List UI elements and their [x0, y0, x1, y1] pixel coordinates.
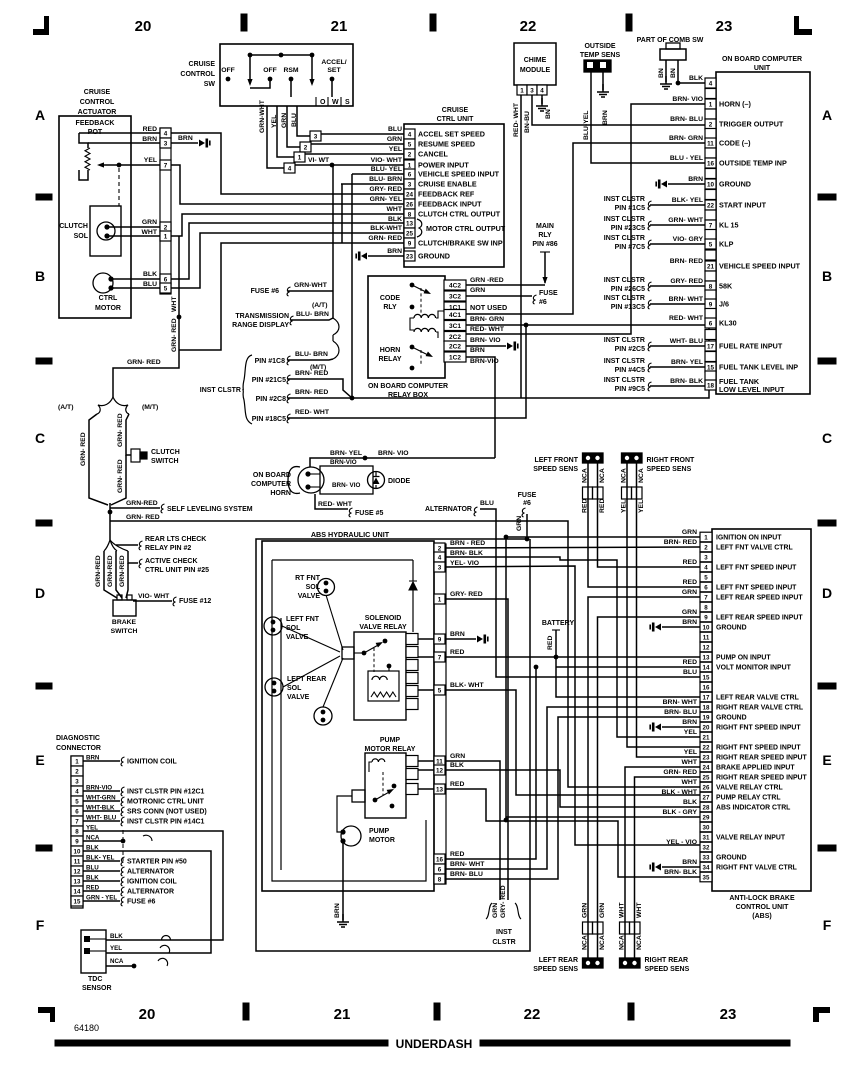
svg-text:VEHICLE SPEED INPUT: VEHICLE SPEED INPUT	[719, 262, 801, 271]
row tick right	[818, 845, 836, 851]
ABS unit pin 23 RIGHT REAR SPEED INPUT	[700, 752, 712, 762]
hydraulic unit connector strip	[434, 544, 446, 884]
svg-text:2: 2	[75, 768, 79, 775]
svg-text:GRN-WHT: GRN-WHT	[259, 99, 266, 133]
column tick bottom 21/22	[434, 1003, 440, 1020]
right front speed sensor	[622, 453, 643, 463]
wire VIO-WHT down to A/T loop	[332, 165, 334, 318]
comb sw symbol	[666, 43, 680, 49]
ABS unit pin 6 LEFT FNT SPEED INPUT	[700, 582, 712, 592]
svg-text:2C2: 2C2	[449, 343, 461, 350]
cruise unit pin 1 POWER INPUT	[404, 160, 415, 170]
svg-text:ABS INDICATOR CTRL: ABS INDICATOR CTRL	[716, 805, 790, 812]
inst clstr bottom brace	[486, 903, 521, 919]
svg-text:6: 6	[75, 808, 79, 815]
svg-text:ACTIVE CHECK: ACTIVE CHECK	[145, 558, 198, 565]
computer unit pin 4	[705, 78, 716, 88]
svg-text:INST CLSTR: INST CLSTR	[604, 295, 645, 302]
svg-text:BRN- RED: BRN- RED	[670, 258, 703, 265]
svg-text:BLU - YEL: BLU - YEL	[670, 155, 703, 162]
svg-text:BATTERY: BATTERY	[542, 620, 575, 627]
ABS unit pin 8	[700, 602, 712, 612]
svg-text:5: 5	[164, 285, 168, 292]
svg-text:4C2: 4C2	[449, 282, 461, 289]
wire RED hydraulic pin 7 to ABS pin 13	[446, 656, 700, 658]
svg-text:3: 3	[314, 133, 318, 140]
diagnostic pin 2	[71, 766, 83, 776]
svg-text:WHT: WHT	[387, 206, 403, 213]
svg-text:LEFT FNT VALVE CTRL: LEFT FNT VALVE CTRL	[716, 545, 793, 552]
connector loop M/T	[333, 341, 339, 359]
ABS unit pin 10 GROUND	[700, 622, 712, 632]
svg-text:YEL: YEL	[110, 945, 122, 952]
svg-text:LEFT REAR: LEFT REAR	[539, 957, 578, 964]
svg-text:23: 23	[406, 253, 414, 260]
svg-text:FUSE: FUSE	[539, 290, 558, 297]
svg-text:18: 18	[707, 382, 715, 389]
svg-text:GRY- RED: GRY- RED	[450, 591, 483, 598]
svg-text:7: 7	[438, 654, 442, 661]
svg-text:3: 3	[438, 564, 442, 571]
svg-text:4: 4	[438, 554, 442, 561]
svg-text:32: 32	[703, 844, 710, 851]
svg-text:BRN- BLK: BRN- BLK	[450, 550, 483, 557]
svg-text:OUTSIDE: OUTSIDE	[584, 43, 615, 50]
relay box pin 3C1	[444, 321, 466, 331]
svg-text:B: B	[822, 268, 832, 284]
wire BRN-RED hydraulic pin 2 to ABS pin 2	[446, 547, 700, 548]
column tick bottom 20/21	[243, 1003, 249, 1020]
svg-text:BRN- GRN: BRN- GRN	[669, 135, 703, 142]
wire BLU from switch	[297, 106, 310, 136]
computer unit pin 9 J/6	[705, 299, 716, 309]
diagnostic pin 6 SRS CONN (NOT USED)	[71, 806, 83, 816]
row tick left	[36, 845, 52, 851]
wire BRN ground ABS pin 34	[662, 866, 700, 868]
svg-text:BRN- BLU: BRN- BLU	[450, 871, 483, 878]
wire YEL diagnostic pin 8 to TDC	[83, 831, 223, 940]
cruise unit pin 26 FEEDBACK INPUT	[404, 199, 415, 209]
svg-text:13: 13	[703, 654, 710, 661]
hydraulic unit pin 4	[434, 552, 445, 562]
svg-text:GRN -RED: GRN -RED	[470, 277, 504, 284]
wire BRN-BLK computer pin 18 inst clstr #9C5	[650, 385, 705, 387]
svg-text:BRN- GRN: BRN- GRN	[470, 316, 504, 323]
hydraulic unit pin 2	[434, 543, 445, 553]
svg-text:ON BOARD: ON BOARD	[253, 472, 291, 479]
svg-text:2: 2	[408, 151, 412, 158]
hydraulic unit pin 3	[434, 562, 445, 572]
svg-text:CLSTR: CLSTR	[492, 939, 515, 946]
wire NCA TDC no connection	[106, 965, 132, 967]
svg-text:27: 27	[703, 794, 710, 801]
diagnostic pin 4 INST CLSTR PIN #12C1	[71, 786, 83, 796]
wire GRN-RED brake 3 with active check stub	[128, 551, 138, 563]
svg-text:BLU: BLU	[480, 500, 494, 507]
svg-text:BRN- RED: BRN- RED	[295, 370, 328, 377]
svg-text:23: 23	[716, 18, 733, 35]
wire RED-WHT horn to fuse #5	[315, 494, 348, 509]
svg-text:12: 12	[703, 644, 710, 651]
svg-text:GROUND: GROUND	[716, 715, 747, 722]
svg-text:INST CLSTR: INST CLSTR	[604, 337, 645, 344]
pin 6	[160, 274, 171, 284]
svg-text:CONNECTOR: CONNECTOR	[56, 745, 101, 752]
svg-text:YEL- VIO: YEL- VIO	[450, 560, 479, 567]
svg-text:FUSE: FUSE	[518, 492, 537, 499]
svg-text:YEL - VIO: YEL - VIO	[666, 839, 697, 846]
svg-text:CLUTCH: CLUTCH	[59, 223, 88, 230]
wire RED hydraulic pin 16 to ABS pin 14	[446, 667, 536, 859]
svg-text:GRN: GRN	[142, 219, 157, 226]
svg-text:BRN: BRN	[450, 631, 465, 638]
cruise unit pin 8 CLUTCH CTRL OUTPUT	[404, 209, 415, 219]
wire RED-WHT inst clstr pin #18C5	[288, 325, 526, 418]
svg-text:3C2: 3C2	[449, 293, 461, 300]
wire GRN-WHT fuse #6	[288, 290, 333, 292]
wire RED hydraulic pin 7 stub	[418, 656, 446, 658]
wire BLK ctrl motor pin 6	[111, 278, 160, 280]
wire NCA diagnostic pin 9 no connection	[83, 840, 121, 842]
svg-text:BLU- BRN: BLU- BRN	[295, 351, 328, 358]
connector pin 3	[310, 131, 321, 141]
svg-text:BRN-VIO: BRN-VIO	[470, 358, 499, 365]
svg-text:FEEDBACK INPUT: FEEDBACK INPUT	[418, 200, 482, 209]
svg-text:1C2: 1C2	[449, 354, 461, 361]
wire BN chime pin 4 to ground	[541, 95, 543, 104]
diagnostic pin 10	[71, 846, 83, 856]
svg-text:LEFT FRONT: LEFT FRONT	[534, 457, 578, 464]
svg-text:GROUND: GROUND	[418, 252, 450, 261]
svg-text:6: 6	[709, 320, 713, 327]
node WHT/GRN-RED junction	[177, 315, 182, 320]
ABS unit pin 20 RIGHT FNT SPEED INPUT	[700, 722, 712, 732]
svg-text:MOTOR: MOTOR	[95, 305, 121, 312]
switch top rail	[250, 54, 312, 56]
svg-text:RED: RED	[683, 559, 697, 566]
svg-text:#6: #6	[539, 299, 547, 306]
svg-text:4: 4	[709, 80, 713, 87]
svg-text:3: 3	[75, 778, 79, 785]
svg-text:4C1: 4C1	[449, 312, 461, 319]
svg-text:YEL: YEL	[684, 749, 697, 756]
svg-text:1: 1	[298, 154, 302, 161]
svg-text:CRUISE: CRUISE	[84, 89, 111, 96]
hydraulic inner wire loop	[272, 559, 413, 561]
ABS unit pin 12	[700, 642, 712, 652]
svg-text:ACTUATOR: ACTUATOR	[78, 109, 117, 116]
cruise unit pin 6 VEHICLE SPEED INPUT	[404, 169, 415, 179]
wire GRN ABS pin 1	[506, 536, 700, 538]
computer unit empty pin	[705, 330, 716, 340]
dashed link wiper to clutch sol	[118, 168, 120, 206]
computer unit pin 16 OUTSIDE TEMP INP	[705, 158, 716, 168]
svg-text:GRN- RED: GRN- RED	[171, 318, 178, 352]
wire BRN-RED inst clstr pin #2C8 long to computer pin 21	[288, 266, 709, 398]
svg-text:1: 1	[408, 162, 412, 169]
svg-text:RED- WHT: RED- WHT	[295, 409, 330, 416]
wire BRN hydraulic pin 9 ground	[446, 638, 476, 640]
svg-text:GRN-RED: GRN-RED	[107, 555, 114, 587]
svg-text:CRUISE ENABLE: CRUISE ENABLE	[418, 180, 477, 189]
pin 7	[160, 160, 171, 170]
svg-text:PIN #26C5: PIN #26C5	[611, 286, 645, 293]
svg-text:GRN: GRN	[682, 589, 697, 596]
svg-text:64180: 64180	[74, 1023, 99, 1033]
svg-text:WHT- BLU: WHT- BLU	[670, 338, 703, 345]
svg-text:MOTOR CTRL OUTPUT: MOTOR CTRL OUTPUT	[426, 224, 506, 233]
ground relay 2C2	[507, 343, 513, 350]
svg-text:FUSE #6: FUSE #6	[127, 899, 156, 906]
switch contact dots	[226, 77, 231, 82]
svg-text:2: 2	[438, 545, 442, 552]
svg-text:TEMP SENS: TEMP SENS	[580, 52, 621, 59]
hydraulic unit pin 8	[434, 874, 445, 884]
relay box pin 4C2	[444, 280, 466, 290]
pump relay coil	[372, 759, 385, 762]
svg-text:26: 26	[406, 201, 414, 208]
ground computer pin 10	[661, 181, 667, 188]
svg-text:VIO- WHT: VIO- WHT	[371, 157, 403, 164]
switch internal wires	[250, 79, 270, 88]
svg-text:VI- WT: VI- WT	[308, 157, 330, 164]
wire WHT right rear sensor to ABS pin 24	[625, 767, 700, 958]
svg-text:3: 3	[164, 140, 168, 147]
svg-text:RED- WHT: RED- WHT	[318, 501, 353, 508]
svg-text:RIGHT FNT SPEED INPUT: RIGHT FNT SPEED INPUT	[716, 745, 801, 752]
svg-text:SWITCH: SWITCH	[151, 458, 179, 465]
svg-text:RED: RED	[450, 649, 464, 656]
svg-text:GRN- RED: GRN- RED	[368, 235, 402, 242]
svg-text:PIN #1C8: PIN #1C8	[255, 358, 285, 365]
svg-text:BRN-VIO: BRN-VIO	[330, 459, 357, 466]
svg-text:PIN #86: PIN #86	[532, 241, 557, 248]
wire BRN-WHT computer pin 9 inst clstr #13C5	[650, 303, 705, 305]
svg-text:WHT: WHT	[636, 902, 643, 918]
svg-text:20: 20	[139, 1006, 156, 1023]
svg-text:REAR LTS CHECK: REAR LTS CHECK	[145, 536, 206, 543]
svg-text:GRN-RED: GRN-RED	[119, 555, 126, 587]
svg-text:DIODE: DIODE	[388, 478, 411, 485]
svg-text:RIGHT REAR: RIGHT REAR	[645, 957, 689, 964]
wire BLK pin6 to cruise unit pin 13	[171, 223, 404, 279]
feedback pot resistor	[79, 133, 88, 148]
svg-text:5: 5	[438, 687, 442, 694]
svg-text:BRN: BRN	[334, 903, 341, 918]
svg-text:COMPUTER: COMPUTER	[251, 481, 291, 488]
svg-text:2: 2	[304, 144, 308, 151]
wire BLU-BRN down to GRN-RED row	[341, 184, 343, 243]
wire GRN-RED vertical to A/T fork	[113, 317, 179, 397]
svg-text:RANGE DISPLAY: RANGE DISPLAY	[232, 322, 289, 329]
wire BRN ground cruise pin 23	[368, 255, 404, 257]
node BRN-RED junction	[350, 396, 355, 401]
svg-text:16: 16	[707, 160, 715, 167]
svg-text:4: 4	[540, 87, 544, 94]
cruise unit pin 2 CANCEL	[404, 149, 415, 159]
cruise unit pin 3 CRUISE ENABLE	[404, 179, 415, 189]
svg-text:RED: RED	[547, 636, 554, 650]
wire GRN-RED right branch	[126, 414, 129, 449]
wire GRN from switch	[287, 106, 300, 147]
computer unit empty pin	[705, 190, 716, 200]
svg-text:WHT: WHT	[142, 229, 158, 236]
computer unit empty pin	[705, 129, 716, 139]
svg-text:19: 19	[703, 714, 710, 721]
svg-text:RIGHT REAR VALVE CTRL: RIGHT REAR VALVE CTRL	[716, 705, 803, 712]
svg-text:21: 21	[703, 734, 710, 741]
svg-text:CONTROL UNIT: CONTROL UNIT	[736, 904, 789, 911]
svg-text:PIN #1C5: PIN #1C5	[615, 205, 645, 212]
svg-text:RED: RED	[683, 579, 697, 586]
wire GRN-RED to self leveling system	[110, 507, 160, 509]
svg-text:ON BOARD COMPUTER: ON BOARD COMPUTER	[368, 383, 448, 390]
wire BLU-BRN transmission range display	[291, 318, 333, 320]
wire BRN relay 2C2b to ground	[466, 345, 506, 347]
svg-text:INST CLSTR: INST CLSTR	[604, 216, 645, 223]
svg-text:RED- WHT: RED- WHT	[513, 102, 520, 137]
node RED pin16 junction	[534, 665, 539, 670]
wire GRN hydraulic pin 11 to inst clstr	[446, 761, 500, 900]
solenoid relay coil	[368, 671, 399, 701]
svg-text:25: 25	[703, 774, 710, 781]
computer unit empty pin	[705, 352, 716, 362]
wire BLK comb sw to computer pin 4	[678, 82, 705, 84]
svg-text:BRN- RED: BRN- RED	[295, 389, 328, 396]
wire BLK hydraulic pin 12 stub	[418, 769, 446, 771]
wire BLU pin3 to cruise unit pin 4	[321, 133, 404, 135]
svg-text:35: 35	[703, 874, 710, 881]
svg-text:30: 30	[703, 824, 710, 831]
svg-text:6: 6	[438, 866, 442, 873]
svg-text:C: C	[822, 430, 832, 446]
computer unit empty pin	[705, 271, 716, 281]
svg-text:BRN- BLU: BRN- BLU	[664, 709, 697, 716]
wire BRN-BLU hydraulic pin 8 to ABS pin 18	[446, 717, 700, 879]
svg-text:BRN: BRN	[470, 347, 485, 354]
hop arc on TDC wire	[162, 936, 171, 941]
svg-text:GRN: GRN	[682, 609, 697, 616]
svg-text:BLK: BLK	[450, 762, 464, 769]
svg-text:18: 18	[703, 704, 710, 711]
connector pin 2	[300, 142, 311, 152]
wire YEL right front sensor to ABS pin 22	[627, 463, 700, 747]
svg-text:5: 5	[408, 141, 412, 148]
svg-text:C: C	[35, 430, 45, 446]
row tick right	[818, 520, 836, 526]
ABS unit pin 33 GROUND	[700, 852, 712, 862]
computer unit pin 8 58K	[705, 281, 716, 291]
svg-text:INST CLSTR: INST CLSTR	[604, 277, 645, 284]
svg-text:ABS HYDRAULIC UNIT: ABS HYDRAULIC UNIT	[311, 530, 390, 539]
svg-text:F: F	[823, 917, 832, 933]
svg-text:9: 9	[408, 240, 412, 247]
svg-text:BLU- YEL: BLU- YEL	[371, 166, 402, 173]
svg-text:BRN- WHT: BRN- WHT	[450, 861, 485, 868]
svg-text:CTRL UNIT PIN #25: CTRL UNIT PIN #25	[145, 567, 209, 574]
relay box pin 4C1	[444, 310, 466, 320]
svg-text:GRN- RED: GRN- RED	[126, 514, 160, 521]
actuator connector strip	[160, 128, 171, 294]
wire GRN-RED brake 2 with rear lts check stub	[115, 551, 117, 556]
svg-text:GROUND: GROUND	[716, 855, 747, 862]
hydraulic unit pin 1	[434, 594, 445, 604]
diagnostic pin 9	[71, 836, 83, 846]
svg-text:BRAKE APPLIED INPUT: BRAKE APPLIED INPUT	[716, 765, 795, 772]
ABS unit pin 19 GROUND	[700, 712, 712, 722]
wire BRN ground computer pin 10	[668, 183, 705, 185]
pin 4	[160, 128, 171, 138]
wire BRN actuator pin 3	[88, 142, 160, 144]
solenoid relay pin stack	[406, 634, 418, 645]
node comb sw junction	[676, 81, 681, 86]
svg-text:ON BOARD COMPUTER: ON BOARD COMPUTER	[722, 56, 802, 63]
ABS unit pin 17 LEFT REAR VALVE CTRL	[700, 692, 712, 702]
wire WHT-BLU computer pin 17 inst clstr #2C5	[650, 345, 705, 347]
TDC sensor box	[81, 930, 106, 973]
svg-text:BLK: BLK	[143, 271, 157, 278]
wire BRN to ground from pin 3	[171, 142, 198, 144]
svg-text:SW: SW	[204, 81, 216, 88]
svg-text:INST CLSTR PIN #14C1: INST CLSTR PIN #14C1	[127, 819, 205, 826]
svg-text:PUMP RELAY CTRL: PUMP RELAY CTRL	[716, 795, 781, 802]
computer unit pin 17 FUEL RATE INPUT	[705, 341, 716, 351]
relay box pin 3C2	[444, 291, 466, 301]
clutch sol box	[90, 206, 121, 256]
svg-text:GRN: GRN	[281, 113, 288, 128]
ABS unit pin 32	[700, 842, 712, 852]
relay box pin 2C2	[444, 332, 466, 342]
wire BLU-BRN inst clstr pin #1C8	[288, 359, 333, 360]
pin 5	[160, 283, 171, 293]
left front speed sensor	[583, 453, 604, 463]
svg-text:MODULE: MODULE	[520, 67, 551, 74]
outside temp sens connector	[584, 60, 611, 72]
svg-text:7: 7	[164, 162, 168, 169]
svg-text:SPEED SENS: SPEED SENS	[647, 466, 692, 473]
svg-text:LOW LEVEL INPUT: LOW LEVEL INPUT	[719, 385, 785, 394]
svg-text:INST CLSTR: INST CLSTR	[200, 387, 241, 394]
svg-text:FEEDBACK REF: FEEDBACK REF	[418, 190, 475, 199]
svg-text:9: 9	[75, 838, 79, 845]
wire BLK-YEL computer pin 22 inst clstr #1C5	[650, 204, 705, 206]
column tick bottom 22/23	[628, 1003, 634, 1020]
svg-text:UNIT: UNIT	[754, 65, 771, 72]
svg-text:ACCEL SET SPEED: ACCEL SET SPEED	[418, 130, 485, 139]
svg-text:15: 15	[703, 674, 710, 681]
wire WHT down from actuator	[178, 236, 180, 317]
wire BLK diagnostic pin 10 to TDC	[83, 851, 211, 953]
svg-text:7: 7	[75, 818, 79, 825]
ABS unit pin 35	[700, 872, 712, 882]
wire RED-WHT chime pin 1 down	[520, 95, 522, 398]
svg-text:DIAGNOSTIC: DIAGNOSTIC	[56, 735, 100, 742]
svg-text:NCA: NCA	[599, 935, 606, 950]
svg-text:BRN: BRN	[682, 859, 697, 866]
svg-text:BLK- WHT: BLK- WHT	[450, 682, 484, 689]
svg-text:24: 24	[406, 191, 414, 198]
bottom border bar with UNDERDASH label	[55, 1040, 388, 1046]
svg-text:#6: #6	[523, 500, 531, 507]
wire RED hydraulic pin 13 to junction	[446, 789, 506, 821]
svg-text:22: 22	[524, 1006, 541, 1023]
wire BLU pin5 to cruise unit pin 25	[171, 233, 404, 288]
svg-text:6: 6	[164, 276, 168, 283]
svg-text:GRN: GRN	[599, 903, 606, 918]
row tick left	[36, 194, 52, 200]
node self leveling branch	[108, 510, 113, 515]
svg-text:17: 17	[703, 694, 710, 701]
